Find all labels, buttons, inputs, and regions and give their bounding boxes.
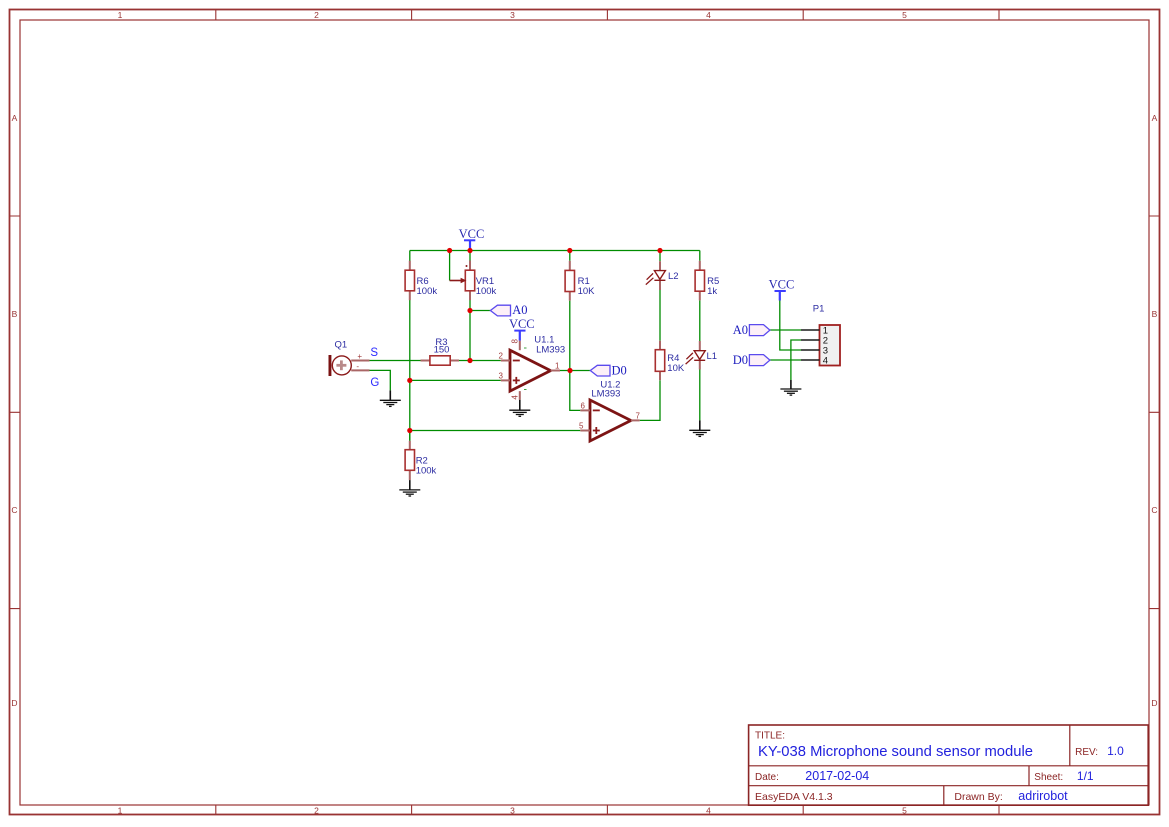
svg-text:4: 4 xyxy=(706,10,711,20)
wire L2 to R4 xyxy=(659,290,661,341)
wire op-amp pin5 xyxy=(410,430,581,432)
svg-text:A: A xyxy=(1152,113,1158,123)
wire mic S to op-amp pin2 xyxy=(370,360,501,362)
svg-text:2: 2 xyxy=(314,806,319,816)
wire R1 pull-up vertical to pin6 xyxy=(570,301,581,411)
LED L1 xyxy=(686,341,706,370)
svg-text:Date:: Date: xyxy=(755,772,779,783)
svg-text:3: 3 xyxy=(499,372,504,381)
resistor R4 xyxy=(655,341,664,381)
frame column numbers top xyxy=(118,10,908,20)
wire R6 branch vertical xyxy=(409,251,411,441)
junction pin1 / D0 node xyxy=(567,368,572,373)
wire VR1 wiper branch xyxy=(449,251,451,281)
svg-text:D0: D0 xyxy=(612,363,627,377)
svg-text:150: 150 xyxy=(434,345,450,356)
power VCC at P1 xyxy=(769,278,795,301)
svg-text:100k: 100k xyxy=(476,286,497,297)
wire VCC to P1 pin3 xyxy=(780,301,801,351)
frame column numbers bottom xyxy=(118,806,908,816)
wire pin1 output to D0 xyxy=(560,370,590,372)
wire top VCC rail xyxy=(410,250,700,252)
svg-text:B: B xyxy=(1152,309,1158,319)
ground at U1.1 pin4 xyxy=(509,400,530,417)
junction pin3 node xyxy=(407,378,412,383)
wire R1 top stub xyxy=(569,251,571,261)
svg-text:P1: P1 xyxy=(813,304,825,315)
svg-text:1: 1 xyxy=(118,10,123,20)
svg-text:adrirobot: adrirobot xyxy=(1018,789,1068,803)
wire pin7 to R4 xyxy=(640,380,660,420)
junction top rail at VR1 wiper xyxy=(447,248,452,253)
svg-text:TITLE:: TITLE: xyxy=(755,731,785,742)
ground at P1 xyxy=(780,380,801,395)
svg-text:5: 5 xyxy=(579,422,584,431)
ground at R2 xyxy=(399,480,420,496)
ground at L1 xyxy=(689,420,710,436)
svg-text:6: 6 xyxy=(581,401,586,410)
svg-text:5: 5 xyxy=(902,806,907,816)
svg-text:Sheet:: Sheet: xyxy=(1034,772,1063,783)
resistor R2 xyxy=(405,441,414,480)
svg-text:4: 4 xyxy=(511,395,520,400)
svg-text:2017-02-04: 2017-02-04 xyxy=(805,769,869,783)
wire D0 to P1 pin4 xyxy=(770,359,801,361)
svg-text:A0: A0 xyxy=(733,323,748,337)
wire mic G to ground xyxy=(370,370,391,390)
svg-text:4: 4 xyxy=(823,356,828,367)
wire VR1 body vertical xyxy=(469,251,471,261)
wire R5 top xyxy=(699,251,701,261)
svg-text:REV:: REV: xyxy=(1075,747,1098,758)
wire A0 to P1 pin1 xyxy=(770,329,801,331)
junction top rail at VR1 xyxy=(467,248,472,253)
microphone Q1 xyxy=(329,352,370,376)
svg-text:8: 8 xyxy=(511,338,520,343)
ground at microphone xyxy=(380,390,401,406)
resistor R6 xyxy=(405,261,414,301)
LED L2 xyxy=(646,261,666,290)
junction pin5 node xyxy=(407,428,412,433)
svg-text:VCC: VCC xyxy=(459,227,485,241)
svg-text:Drawn By:: Drawn By: xyxy=(954,791,1002,803)
svg-text:G: G xyxy=(370,377,379,389)
svg-text:D0: D0 xyxy=(733,353,748,367)
resistor R1 xyxy=(565,261,574,301)
svg-text:LM393: LM393 xyxy=(536,345,565,356)
wire P1 pin2 to ground xyxy=(791,340,801,380)
svg-text:2: 2 xyxy=(499,352,504,361)
svg-text:3: 3 xyxy=(510,806,515,816)
svg-text:3: 3 xyxy=(510,10,515,20)
svg-text:10K: 10K xyxy=(578,286,596,297)
wire L1 to ground xyxy=(699,370,701,421)
resistor R3 xyxy=(421,356,460,365)
svg-text:10K: 10K xyxy=(667,363,685,374)
svg-text:7: 7 xyxy=(636,411,641,420)
svg-text:LM393: LM393 xyxy=(591,389,620,400)
svg-text:1: 1 xyxy=(118,806,123,816)
svg-text:A0: A0 xyxy=(512,303,527,317)
svg-text:1.0: 1.0 xyxy=(1107,744,1124,758)
svg-text:VCC: VCC xyxy=(509,317,535,331)
op-amp U1.1 xyxy=(501,341,560,400)
net port A0 (at P1) xyxy=(749,325,770,336)
svg-text:5: 5 xyxy=(902,10,907,20)
frame row letters right xyxy=(1151,113,1157,708)
potentiometer VR1 xyxy=(450,261,475,301)
connector P1 xyxy=(801,325,840,366)
svg-text:1: 1 xyxy=(555,361,560,370)
wire op-amp pin3 xyxy=(410,379,501,381)
wire VR1 bottom to A0 node to R3 node xyxy=(469,300,471,361)
svg-text:D: D xyxy=(1151,698,1157,708)
wire R2 top xyxy=(409,431,411,441)
junction top rail at R1 xyxy=(567,248,572,253)
net port D0 (at P1) xyxy=(749,355,770,366)
svg-text:C: C xyxy=(1151,505,1157,515)
svg-text:A: A xyxy=(12,113,18,123)
svg-text:2: 2 xyxy=(314,10,319,20)
power VCC top xyxy=(459,227,485,251)
svg-text:L1: L1 xyxy=(707,351,718,362)
svg-text:B: B xyxy=(12,309,18,319)
svg-text:1/1: 1/1 xyxy=(1077,769,1094,783)
junction A0 tap xyxy=(467,308,472,313)
svg-text:Q1: Q1 xyxy=(335,340,348,351)
svg-text:L2: L2 xyxy=(668,271,679,282)
power VCC at U1.1 pin8 xyxy=(509,317,535,341)
wire A0 tap xyxy=(470,310,490,312)
svg-text:S: S xyxy=(370,347,378,359)
net port D0 (at U1.1 output) xyxy=(590,365,610,376)
svg-text:100k: 100k xyxy=(416,465,437,476)
title block xyxy=(749,725,1149,805)
svg-text:4: 4 xyxy=(706,806,711,816)
svg-text:1k: 1k xyxy=(707,286,717,297)
junction R3 out / pin2 xyxy=(467,358,472,363)
svg-text:+: + xyxy=(357,352,362,361)
net port A0 (left schematic) xyxy=(490,305,510,316)
svg-text:VCC: VCC xyxy=(769,278,795,292)
svg-text:KY-038 Microphone sound sensor: KY-038 Microphone sound sensor module xyxy=(758,744,1033,760)
svg-text:-: - xyxy=(356,362,359,371)
svg-text:EasyEDA V4.1.3: EasyEDA V4.1.3 xyxy=(755,791,833,803)
frame row letters left xyxy=(11,113,17,708)
wire L2 top stub xyxy=(659,251,661,262)
svg-text:D: D xyxy=(11,698,17,708)
svg-text:C: C xyxy=(11,505,17,515)
wire R5 to L1 xyxy=(699,300,701,341)
op-amp U1.2 xyxy=(580,400,639,441)
svg-text:100k: 100k xyxy=(417,286,438,297)
junction top rail at L2 xyxy=(657,248,662,253)
resistor R5 xyxy=(695,261,704,301)
